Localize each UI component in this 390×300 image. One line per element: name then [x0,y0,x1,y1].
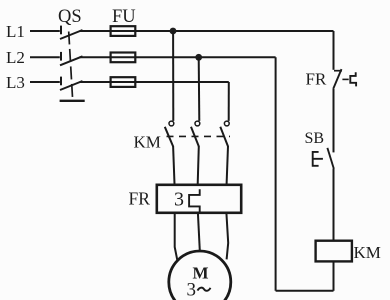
svg-text:3: 3 [187,280,197,300]
junction dot phase B [195,54,202,61]
wire phase A vertical to KM [172,31,174,121]
wire KM pole 2 to FR box [198,146,199,184]
switch QS pole 3 blade [60,81,83,90]
svg-text:L2: L2 [6,48,25,67]
wire control left branch up to L2 [275,57,277,290]
wire KM pole 1 to FR box [173,146,174,184]
fuse FU2 [111,53,136,63]
wire FR contact to SB [333,89,335,152]
svg-text:L1: L1 [6,22,25,41]
wire phase C vertical to KM [228,82,230,121]
wire KM pole 3 to FR box [227,146,228,184]
wire L1 incoming [30,30,60,32]
svg-text:QS: QS [58,7,82,27]
fuse FU1 [111,26,136,36]
wire FR box to motor lead 3 [226,213,228,260]
thermal relay heater symbol [189,189,200,212]
switch QS pole 1 fixed contact tick [60,26,62,35]
wire control right branch down from L1 [333,31,335,70]
wire FR box to motor lead 1 [175,213,178,261]
svg-text:KM: KM [354,243,381,262]
wire L3 incoming [30,81,60,83]
wire SB to KM coil [333,169,335,241]
svg-text:FR: FR [306,70,327,89]
wire coil bottom down [333,261,335,290]
relay contact FR blade [333,69,341,89]
motor label tilde [198,288,211,291]
wire control bottom horizontal [276,290,334,292]
coil KM rectangle [316,241,352,262]
contactor KM linkage dashed [167,135,231,137]
svg-text:L3: L3 [6,73,25,92]
wire L3 from QS to corner [80,81,229,83]
junction dot phase A [170,28,177,35]
contactor KM pole 3 contact circle [224,121,229,126]
wire L2 from QS to control branch corner [80,56,276,58]
svg-text:FR: FR [129,189,151,209]
wire L1 from QS through FU to right corner [80,30,334,32]
contactor KM pole 1 blade [165,127,173,147]
thermal relay FR box [157,185,241,213]
switch QS pole 2 fixed contact tick [60,52,62,61]
svg-text:FU: FU [112,7,136,27]
pushbutton SB operator E [313,152,323,166]
svg-text:3: 3 [174,189,184,211]
switch QS pole 3 fixed contact tick [60,77,62,86]
contactor KM pole 2 contact circle [195,121,200,126]
fuse FU3 [111,77,136,87]
svg-text:SB: SB [305,130,325,147]
contactor KM pole 3 blade [220,127,228,147]
svg-text:KM: KM [134,133,161,152]
relay contact FR seat tick [334,70,342,72]
motor M circle [169,251,231,300]
contactor KM pole 1 contact circle [169,121,174,126]
switch QS linkage dashed [69,32,73,100]
wire FR box to motor lead 2 [198,213,200,251]
switch QS pole 1 blade [60,30,83,39]
contactor KM pole 2 blade [191,127,199,147]
relay contact FR trip link dash [342,78,348,80]
relay contact FR trip bracket [350,72,356,86]
pushbutton SB blade [327,148,333,169]
switch QS handle bar [60,100,85,102]
switch QS pole 2 blade [60,56,83,65]
wire phase B vertical to KM [198,57,201,121]
wire L2 incoming [30,56,60,58]
